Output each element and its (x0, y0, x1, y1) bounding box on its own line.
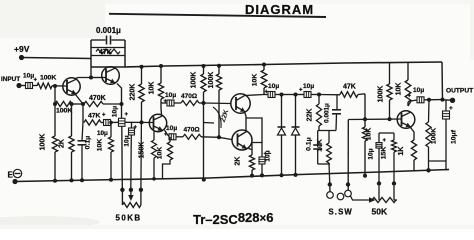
capacitor C6 10u (129, 122, 135, 190)
resistor R11 470 row1 label (181, 93, 197, 100)
INPUT label (1, 76, 20, 83)
wire row104 mid (72, 103, 84, 105)
capacitor C3 vlabel (112, 106, 119, 117)
svg-text:100K: 100K (40, 134, 47, 151)
resistor R1 100K input (37, 83, 52, 89)
resistor R21 10K coil (327, 131, 332, 165)
capacitor C8 10u row2 (165, 130, 184, 140)
node gnd j2 (70, 178, 74, 182)
resistor R12 470 row2 (183, 134, 219, 139)
switch contact mid (337, 193, 344, 200)
node box-left junction (89, 76, 93, 80)
resistor R22 47K out (340, 92, 365, 98)
svg-text:10μ: 10μ (265, 150, 272, 161)
capacitor C12 0.001u (332, 95, 341, 131)
svg-text:+: + (408, 94, 412, 100)
wire mid cluster bar1 (318, 130, 336, 132)
resistor R20 22K mid (316, 95, 321, 131)
capacitor C15 10uF vlabel (451, 129, 458, 144)
svg-text:47K: 47K (88, 113, 101, 120)
wire sw to 50K (351, 196, 373, 200)
wire Q3 collector (160, 103, 163, 115)
svg-text:100K: 100K (56, 108, 72, 115)
svg-text:470K: 470K (89, 95, 106, 102)
capacitor C9 10u (259, 157, 265, 175)
resistor R4 100K label (56, 108, 72, 115)
svg-text:+: + (383, 138, 387, 144)
resistor R2 100K vertical (52, 86, 57, 181)
node D1 bottom (280, 173, 284, 177)
svg-text:50K: 50K (372, 207, 388, 217)
transistor Q4 (231, 94, 250, 113)
resistor R15 100K-a vlabel (191, 72, 198, 89)
wire 10uF bottom (429, 161, 450, 170)
capacitor C5 vlabel (124, 135, 131, 146)
wire 22K stub (204, 122, 215, 125)
capacitor C6 plus (134, 125, 138, 131)
svg-text:+: + (125, 112, 129, 118)
wire Q6 emitter (411, 128, 415, 141)
node pot dot left (120, 188, 124, 192)
svg-text:10K: 10K (157, 147, 164, 160)
wire Q6 collector to cap (408, 100, 417, 106)
resistor R9 220K (139, 67, 144, 190)
svg-text:10K: 10K (97, 139, 104, 152)
title DIAGRAM (245, 2, 314, 17)
resistor R25 100K right (426, 100, 431, 171)
node 10K-r top (262, 63, 266, 67)
node gnd j3 (80, 178, 84, 182)
resistor R24 10K-o vlabel (396, 83, 403, 96)
node 100K-b bottom (217, 135, 221, 139)
node out drop (441, 98, 445, 102)
node mid1 (280, 93, 284, 97)
node emitter row left (53, 102, 57, 106)
potentiometer 50KB (122, 203, 140, 208)
svg-text:10μ: 10μ (112, 106, 119, 117)
wire pot wiper leg (128, 190, 133, 201)
output terminal dot (450, 98, 455, 103)
wire sw drop (328, 164, 331, 176)
capacitor C9 vlabel (265, 150, 272, 161)
capacitor C10 10u (268, 92, 282, 98)
resistor R5 470K label (89, 95, 106, 102)
capacitor C4 0.1u (78, 123, 87, 181)
capacitor C16 10u fb (376, 133, 382, 184)
wire mid (282, 94, 296, 96)
resistor R18 2K vlabel (235, 157, 242, 166)
wire to Q1 base (52, 85, 67, 87)
resistor R18 2K (249, 150, 254, 176)
node row104 j (81, 102, 85, 106)
svg-text:15K: 15K (381, 147, 388, 160)
capacitor C8 10u row2 label (164, 125, 177, 138)
resistor R3 47K feedback box (91, 40, 125, 67)
resistor R19 10K-r (261, 65, 267, 95)
S.SW label (329, 208, 353, 217)
node row1 end (202, 101, 206, 105)
svg-text:50KB: 50KB (116, 214, 142, 223)
capacitor C16 plus (383, 138, 387, 144)
node 10K top (109, 121, 113, 125)
node fb pot right (392, 181, 396, 185)
node 220K top (140, 65, 144, 69)
capacitor C5 10u (118, 104, 125, 190)
wire Q5 emitter (249, 149, 253, 150)
transistor Q1 (63, 78, 80, 95)
node 100K right top (427, 98, 431, 102)
node 10K fb bottom (363, 174, 367, 178)
resistor R26 1K (411, 140, 416, 171)
resistor R8 10K (109, 122, 114, 179)
node D2 bottom (294, 173, 298, 177)
node row104 end (120, 102, 124, 106)
node pot dot right (139, 188, 143, 192)
resistor R17 22K curve vlabel (220, 109, 231, 123)
svg-text:150K: 150K (139, 142, 146, 159)
resistor R14 10K row2 (163, 137, 173, 179)
capacitor C15 10uF (443, 100, 450, 161)
resistor R28 10K fb (363, 94, 368, 176)
ground terminal dot (12, 179, 17, 184)
svg-text:+: + (102, 113, 106, 119)
node 220K-basewire (140, 120, 144, 124)
wire Q1-Q2 base link (91, 77, 106, 79)
potentiometer 50K (372, 198, 396, 203)
resistor R12 470 row2 label (184, 127, 200, 134)
capacitor C7 10u row1 label (164, 92, 177, 105)
resistor R11 470 row1 (181, 101, 204, 106)
svg-text:E: E (8, 171, 14, 180)
wire pot right leg (140, 190, 142, 205)
wire mid cluster bar2 (318, 163, 330, 165)
resistor R10 10K vlabel (149, 82, 156, 95)
svg-text:INPUT: INPUT (1, 76, 20, 83)
node sw leg2 (346, 182, 350, 186)
50K label (372, 207, 388, 217)
svg-text:10K: 10K (396, 83, 403, 96)
svg-text:10μ: 10μ (97, 130, 108, 137)
OUTPUT label (446, 88, 473, 95)
capacitor label 10u small (97, 130, 108, 137)
svg-text:OUTPUT: OUTPUT (446, 88, 473, 95)
node Q1 base junction (53, 84, 57, 88)
capacitor C11 10u (296, 92, 320, 98)
wire sw leg1 (329, 176, 332, 191)
svg-text:10μ: 10μ (166, 125, 177, 132)
resistor R24 10K-o (405, 63, 411, 106)
capacitor C5 plus (125, 112, 129, 118)
resistor R15 100K-a (201, 66, 206, 180)
capacitor C2 0.001u (91, 36, 125, 45)
switch contact 2 (345, 190, 352, 197)
node mid2 (294, 93, 298, 97)
resistor R2 100K vertical label (40, 134, 47, 151)
svg-text:1K: 1K (398, 147, 405, 156)
resistor R22 47K out label (343, 84, 356, 91)
transistor Q3 (149, 114, 166, 131)
svg-text:10μ: 10μ (303, 83, 314, 90)
resistor R27 15K (392, 133, 397, 184)
wire signal mid (264, 94, 268, 96)
resistor R16 100K-b (216, 66, 221, 138)
node 100K right bottom (426, 168, 430, 172)
svg-text:2K: 2K (59, 139, 66, 148)
capacitor C13 0.1u (313, 131, 322, 165)
svg-text:Tr–2SC828×6: Tr–2SC828×6 (193, 210, 273, 227)
svg-text:100K: 100K (378, 86, 385, 103)
node 2K top (70, 102, 74, 106)
capacitor C1 10u input label (23, 73, 38, 84)
E(-) label (8, 169, 22, 179)
capacitor C14 10u (417, 97, 443, 103)
svg-text:47K: 47K (343, 84, 356, 91)
svg-text:100K: 100K (208, 72, 215, 89)
wire 50K right leg (394, 186, 397, 200)
svg-text:10μ: 10μ (368, 148, 375, 159)
resistor R13 150K (152, 132, 157, 179)
svg-text:47K: 47K (99, 49, 112, 56)
svg-text:S.SW: S.SW (329, 208, 353, 217)
node mid3 (317, 93, 321, 97)
wire sw leg2 (347, 120, 349, 191)
wire 50K left leg (378, 186, 380, 200)
node sw leg1 (328, 182, 332, 186)
potentiometer 50KB label (116, 214, 142, 223)
wire Q5 emitter jog (252, 143, 262, 157)
switch contact 1 (327, 192, 334, 199)
wire +9V rail left segment (22, 58, 92, 59)
input terminal dot (16, 83, 21, 88)
wire pot left leg (121, 190, 123, 205)
capacitor C4 0.1u vlabel (85, 136, 92, 150)
resistor R6 47K label (88, 113, 101, 120)
node 100K-a bottom (202, 178, 206, 182)
wire fb top (379, 132, 394, 134)
svg-text:10μ: 10μ (268, 83, 279, 90)
wire Q4 collector to signal (245, 95, 265, 96)
svg-text:0.1μ: 0.1μ (306, 137, 313, 151)
resistor R1 100K input label (40, 75, 56, 82)
svg-text:10μf: 10μf (451, 129, 458, 144)
node 10K top rail (159, 64, 163, 68)
capacitor C13 0.1u vlabel (306, 137, 313, 151)
svg-text:0.1μ: 0.1μ (85, 136, 92, 150)
capacitor C15 plus (449, 105, 453, 112)
wire Q2 emitter drop (117, 84, 122, 105)
node fb pot left (377, 181, 381, 185)
wire +9V rail right segment (125, 62, 442, 67)
diode D1 (278, 95, 286, 176)
title underline (109, 14, 326, 17)
resistor R16 100K-b vlabel (208, 72, 215, 89)
node 2K bottom (250, 174, 254, 178)
svg-text:10μ: 10μ (124, 135, 131, 146)
svg-text:+: + (299, 88, 303, 94)
resistor R23 100K-o (387, 63, 392, 119)
resistor R7 2K (69, 104, 74, 180)
svg-text:220K: 220K (130, 84, 137, 101)
resistor R7 2K vlabel (59, 139, 66, 148)
wire box left vertical to Q1 node (90, 67, 92, 78)
wire row104 right (103, 103, 122, 105)
transistor Q6 (397, 111, 415, 129)
transistor Q5 (232, 130, 252, 150)
wire Q1 emitter drop (76, 95, 84, 105)
svg-text:10K: 10K (149, 82, 156, 95)
svg-text:+9V: +9V (14, 44, 30, 54)
wire out (443, 99, 453, 101)
capacitor C12 0.001u vlabel (324, 103, 331, 123)
resistor R21 10K vlabel (317, 139, 324, 152)
svg-text:100K: 100K (191, 72, 198, 89)
potentiometer 50K arrow (369, 197, 376, 202)
capacitor C3 10u (101, 120, 119, 126)
node pot dot mid (129, 188, 133, 192)
svg-text:10K: 10K (252, 74, 259, 87)
wire to Q4 base (204, 102, 231, 105)
resistor R8 10K vlabel (97, 139, 104, 152)
resistor R4 100K (55, 101, 72, 106)
node C9 bottom (260, 173, 264, 177)
svg-text:22K: 22K (307, 109, 314, 122)
resistor R5 470K (84, 101, 103, 106)
capacitor C10 10u label (265, 83, 280, 96)
wire Q1 collector to node (76, 78, 92, 79)
wire Q4 emitter to Q5 collector (245, 112, 263, 143)
resistor R6 47K (84, 120, 101, 125)
resistor R20 22K mid vlabel (307, 109, 314, 122)
capacitor C16 vlabel (368, 148, 375, 159)
resistor R19 10K-r vlabel (252, 74, 259, 87)
wire 22K curve (213, 107, 221, 128)
capacitor C2 0.001u label (96, 26, 121, 35)
wire 47K row drop (82, 104, 84, 123)
svg-text:DIAGRAM: DIAGRAM (245, 2, 314, 17)
capacitor C9 plus (264, 152, 268, 158)
resistor R28 10K fb vlabel (366, 128, 373, 141)
wire Q6 base long (348, 118, 401, 121)
resistor R3 47K label (99, 49, 112, 56)
capacitor C7 10u row1 (161, 100, 181, 106)
diode D2 (292, 95, 300, 175)
capacitor C3 plus (102, 113, 106, 119)
+9V label (14, 44, 30, 54)
capacitor C11 10u label (299, 83, 314, 94)
resistor R10 10K col (158, 66, 163, 103)
svg-text:0.001μ: 0.001μ (96, 26, 121, 35)
node 150K bottom (152, 177, 156, 181)
svg-text:470Ω: 470Ω (184, 127, 200, 134)
capacitor C14 10u label (408, 87, 425, 100)
+9V terminal dot (19, 55, 24, 60)
node 100K-o junction (388, 117, 392, 121)
svg-text:0.001μ: 0.001μ (324, 103, 331, 123)
svg-text:2K: 2K (235, 157, 242, 166)
svg-text:10K: 10K (317, 139, 324, 152)
svg-text:100K: 100K (40, 75, 56, 82)
node gnd j4 (109, 178, 113, 182)
svg-text:470Ω: 470Ω (181, 93, 197, 100)
resistor R27 15K vlabel (381, 147, 388, 160)
node sw-10K junction (363, 117, 367, 121)
wire to Q5 base (219, 137, 232, 139)
node 100K-a top (202, 64, 206, 68)
wire box-bottom join (91, 66, 125, 68)
resistor R26 1K vlabel (398, 147, 405, 156)
caption Tr-2SC828x6 (193, 210, 273, 227)
resistor R23 100K-o vlabel (378, 86, 385, 103)
resistor R25 100K right vlabel (431, 128, 438, 144)
svg-text:+: + (34, 78, 38, 84)
wire Q3 base (125, 121, 154, 123)
resistor R14 10K row2 vlabel (157, 147, 164, 160)
node 100K-b top (217, 64, 221, 68)
transistor Q2 (102, 67, 120, 85)
resistor R13 150K vlabel (139, 142, 146, 159)
node gnd j1 (53, 179, 57, 183)
svg-text:10μ: 10μ (413, 87, 424, 94)
capacitor C1 10u input (21, 83, 37, 89)
resistor R9 220K vlabel (130, 84, 137, 101)
wire right-edge drop from rail (441, 62, 444, 100)
wire ground rail (15, 170, 449, 182)
wire mid2 (319, 94, 340, 96)
